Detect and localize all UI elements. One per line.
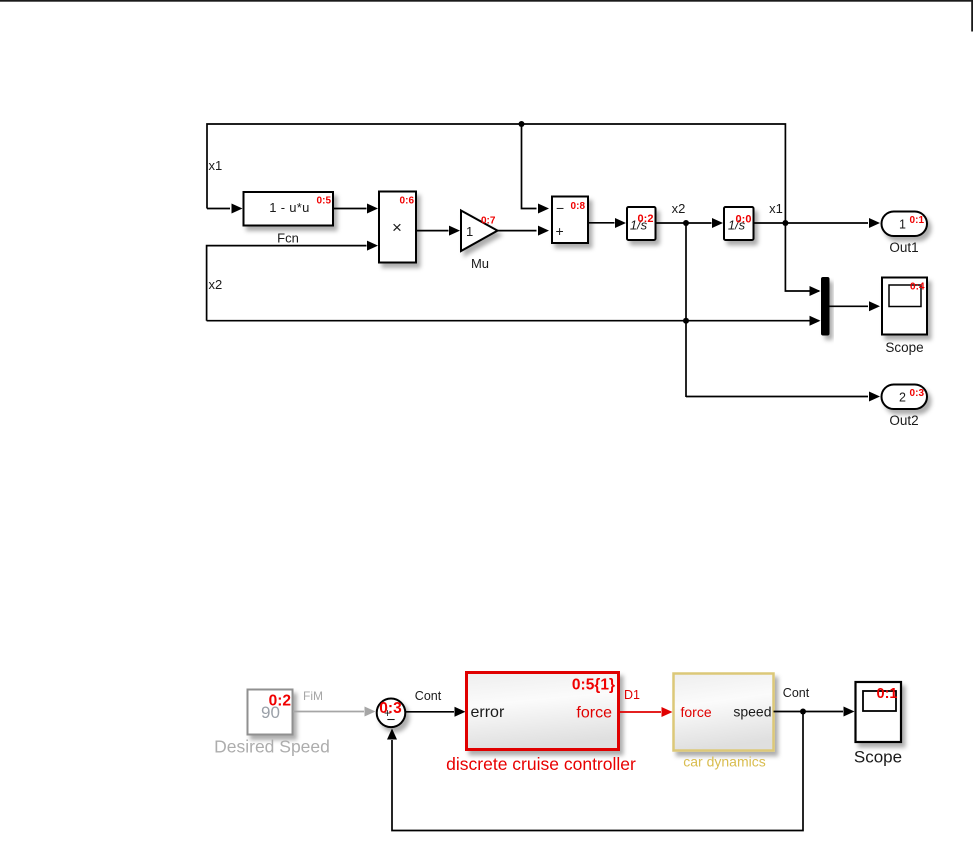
wire: Constant to Sum (gray) xyxy=(293,711,364,713)
svg-text:Out2: Out2 xyxy=(889,413,918,428)
wire: branch from top line down to sum minus input xyxy=(522,124,537,209)
arrowhead into Integrator2 xyxy=(712,218,723,228)
wire: Sum to controller xyxy=(406,711,455,713)
svg-text:2: 2 xyxy=(899,391,906,405)
scope2 screen xyxy=(863,691,896,711)
Integrator1 block xyxy=(627,207,656,240)
svg-text:FiM: FiM xyxy=(303,689,323,703)
svg-text:car dynamics: car dynamics xyxy=(683,754,765,770)
arrowhead into sum minus input xyxy=(538,204,549,214)
arrowhead into controller xyxy=(455,707,466,717)
window frame top edge xyxy=(0,0,973,2)
svg-text:0:5: 0:5 xyxy=(317,196,332,207)
svg-text:Scope: Scope xyxy=(885,340,923,355)
arrowhead into Scope xyxy=(869,301,880,311)
node: junction speed xyxy=(800,709,806,715)
svg-text:1: 1 xyxy=(899,218,906,232)
Out1 port xyxy=(882,212,928,237)
arrowhead into Product in1 xyxy=(367,204,378,214)
wire: x2 branch down xyxy=(685,223,687,397)
arrowhead into Gain xyxy=(449,226,460,236)
subsystem discrete cruise controller xyxy=(467,673,619,750)
Integrator2 block xyxy=(724,207,754,240)
scope screen xyxy=(889,285,921,307)
svg-text:Cont: Cont xyxy=(783,686,810,700)
svg-text:1: 1 xyxy=(466,224,473,239)
svg-text:Desired Speed: Desired Speed xyxy=(214,737,330,757)
Mux bar xyxy=(821,277,830,336)
svg-text:x1: x1 xyxy=(769,201,783,216)
arrowhead into Scope2 xyxy=(844,707,855,717)
svg-text:0:1: 0:1 xyxy=(877,686,898,702)
node: junction x2 xyxy=(683,220,689,226)
arrowhead into mux top input xyxy=(810,286,821,296)
wire: car dynamics to Scope xyxy=(774,711,844,713)
node: junction x1 xyxy=(782,220,788,226)
arrowhead into Sum plus input xyxy=(538,226,549,236)
Gain Mu triangle xyxy=(461,211,498,252)
svg-text:x2: x2 xyxy=(672,201,686,216)
svg-text:0:1: 0:1 xyxy=(910,215,925,226)
svg-text:0:4: 0:4 xyxy=(910,282,925,293)
svg-text:Out1: Out1 xyxy=(889,240,918,255)
Out2 port xyxy=(882,385,928,410)
arrowhead up into Sum bottom xyxy=(387,729,397,740)
wire: x2 to Out2 xyxy=(686,396,868,398)
svg-text:Scope: Scope xyxy=(854,748,902,767)
svg-text:−: − xyxy=(556,200,564,216)
wire: Fcn to Product xyxy=(333,208,367,210)
svg-text:1 - u*u: 1 - u*u xyxy=(269,200,309,215)
wire: Mux to Scope xyxy=(830,305,869,307)
arrowhead into Product in2 xyxy=(367,241,378,251)
svg-text:0:5{1}: 0:5{1} xyxy=(572,677,615,694)
svg-text:Mu: Mu xyxy=(471,256,489,271)
Sum circle xyxy=(377,699,406,728)
Scope block (top) xyxy=(882,278,927,335)
wire: into Fcn xyxy=(207,208,230,210)
svg-text:error: error xyxy=(471,704,505,721)
arrowhead into Integrator1 xyxy=(615,218,626,228)
Constant block Desired Speed xyxy=(248,690,293,735)
wire: feedback loop bottom xyxy=(392,712,803,831)
arrowhead into Out2 xyxy=(869,392,880,402)
svg-text:0:2: 0:2 xyxy=(638,213,654,225)
window frame right edge xyxy=(971,0,973,32)
node: junction x2 on long line xyxy=(683,318,689,324)
Fcn block xyxy=(244,192,334,226)
wire: long x2 line to mux bottom input xyxy=(207,320,819,322)
svg-text:discrete cruise controller: discrete cruise controller xyxy=(446,754,636,774)
svg-text:Cont: Cont xyxy=(415,689,442,703)
wire: x1 feedback top loop xyxy=(207,124,819,291)
wire: Sum to Integrator1 xyxy=(588,222,615,224)
wire: Integrator2 to Out1 xyxy=(754,222,869,224)
subsystem car dynamics xyxy=(674,674,774,751)
svg-text:x2: x2 xyxy=(209,277,223,292)
wire: controller to car dynamics (red) xyxy=(619,711,662,713)
svg-text:0:0: 0:0 xyxy=(736,214,752,226)
wire: Gain to Sum plus input xyxy=(498,230,537,232)
svg-text:x1: x1 xyxy=(209,158,223,173)
svg-text:force: force xyxy=(681,704,712,720)
svg-text:0:3: 0:3 xyxy=(379,700,402,717)
wire: Integrator1 to Integrator2 xyxy=(656,222,712,224)
arrowhead into mux bottom input xyxy=(810,316,821,326)
svg-text:0:6: 0:6 xyxy=(400,196,415,207)
Product block xyxy=(379,192,416,263)
node: junction on top line feeding sum xyxy=(519,121,525,127)
svg-text:+: + xyxy=(556,223,564,239)
svg-text:0:7: 0:7 xyxy=(481,216,496,227)
wire: Product to Gain xyxy=(416,230,449,232)
svg-text:speed: speed xyxy=(733,704,771,720)
Scope block (bottom) xyxy=(856,682,902,742)
svg-text:0:3: 0:3 xyxy=(910,388,925,399)
arrowhead gray into Sum xyxy=(365,707,376,717)
arrowhead red into car dynamics xyxy=(662,707,673,717)
arrowhead into Fcn xyxy=(232,204,243,214)
svg-text:×: × xyxy=(392,218,402,237)
svg-text:0:8: 0:8 xyxy=(571,201,586,212)
svg-text:force: force xyxy=(576,705,612,722)
svg-text:Fcn: Fcn xyxy=(277,231,299,246)
svg-text:D1: D1 xyxy=(624,688,640,702)
Sum block xyxy=(552,197,588,244)
svg-text:0:2: 0:2 xyxy=(269,693,291,710)
wire: x2 into Product in2 xyxy=(207,246,367,321)
arrowhead into Out1 xyxy=(869,218,880,228)
